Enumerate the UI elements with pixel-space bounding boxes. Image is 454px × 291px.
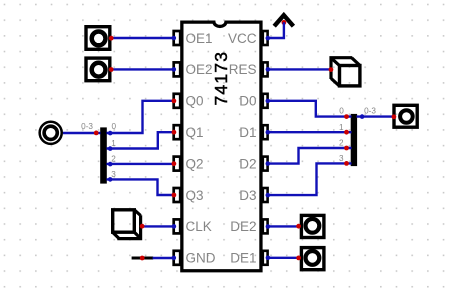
svg-text:Q2: Q2: [186, 156, 204, 171]
pin Q0: [174, 94, 181, 108]
svg-text:3: 3: [339, 154, 344, 163]
svg-text:Q0: Q0: [186, 94, 204, 109]
pin label VCC: [228, 31, 257, 46]
pin D2: [263, 157, 268, 171]
wire DE1 (pin DE1 to J4): [266, 255, 301, 260]
pin label DE1: [230, 251, 256, 266]
svg-text:Q1: Q1: [186, 125, 204, 140]
pin label Q3: [186, 188, 204, 203]
svg-text:Q3: Q3: [186, 188, 204, 203]
pin DE2: [263, 219, 268, 233]
connector J1 (square pin header, OE1): [86, 27, 110, 50]
pin Q1: [174, 125, 181, 139]
svg-text:D0: D0: [239, 94, 256, 109]
svg-text:0-3: 0-3: [364, 107, 376, 116]
pin D3: [263, 188, 268, 202]
svg-text:OE2: OE2: [186, 62, 213, 77]
pin Q2: [174, 157, 181, 171]
bus right (D0-D3): [351, 114, 357, 166]
pin label Q0: [186, 94, 204, 109]
wire Q1 (left bus to pin Q1): [107, 130, 177, 151]
connector J5 (round terminal, left): [40, 122, 62, 144]
svg-text:0: 0: [339, 107, 344, 116]
svg-text:1: 1: [111, 139, 116, 148]
svg-text:VCC: VCC: [228, 31, 257, 46]
IC U1 74173 body: [182, 22, 261, 271]
svg-text:3: 3: [111, 170, 116, 179]
svg-text:OE1: OE1: [186, 31, 213, 46]
svg-text:RES: RES: [229, 62, 257, 77]
wire Q0 (left bus to pin Q0): [107, 99, 177, 136]
wire GND black stub: [132, 256, 154, 261]
right bus label 3: [339, 154, 344, 163]
pin label D1: [239, 125, 256, 140]
pin label GND: [186, 251, 216, 266]
svg-text:0: 0: [112, 122, 117, 131]
pin GND: [174, 251, 181, 265]
connector J4 (square pin header, DE1): [301, 248, 324, 270]
pin label Q2: [186, 156, 204, 171]
svg-text:DE2: DE2: [230, 219, 256, 234]
connector J2 (square pin header, OE2): [86, 58, 110, 81]
svg-text:2: 2: [111, 155, 116, 164]
left bus label 0: [112, 122, 117, 131]
power symbol VCC arrow: [274, 15, 293, 26]
wire donut J5 to left bus: [63, 131, 101, 136]
svg-text:D1: D1: [239, 125, 256, 140]
svg-text:0-3: 0-3: [81, 122, 93, 131]
pin CLK: [174, 219, 181, 233]
pin label OE1: [186, 31, 213, 46]
left bus label 1: [111, 139, 116, 148]
wire Q3 (left bus to pin Q3): [107, 177, 177, 197]
bus left (Q0-Q3): [100, 127, 107, 183]
wire DE2 (pin DE2 to J3): [266, 224, 301, 229]
pin DE1: [263, 251, 268, 265]
wire D2 (pin D2 to right bus): [266, 146, 352, 166]
wire D1 (pin D1 to right bus): [266, 130, 352, 135]
right bus label 0: [339, 107, 344, 116]
pin D0: [263, 94, 268, 108]
pin label DE2: [230, 219, 256, 234]
svg-text:CLK: CLK: [186, 219, 212, 234]
pin label RES: [229, 62, 257, 77]
left bus label 0-3: [81, 122, 93, 131]
wire D3 (pin D3 to right bus): [266, 161, 352, 197]
pin label CLK: [186, 219, 212, 234]
svg-text:D3: D3: [239, 188, 256, 203]
pin OE1: [174, 31, 181, 45]
cube P2 (CLK net cube): [113, 210, 141, 239]
wire RES (pin RES to cube P1): [266, 67, 334, 72]
right bus label 1: [339, 123, 344, 132]
wire right bus to connector J6: [357, 114, 397, 119]
pin label D2: [239, 156, 256, 171]
svg-text:GND: GND: [186, 251, 216, 266]
pin label D3: [239, 188, 256, 203]
pin label D0: [239, 94, 256, 109]
pin D1: [263, 125, 268, 139]
right bus label 2: [339, 138, 344, 147]
cube P1 (RES net cube): [331, 58, 360, 86]
connector J6 (square pin header, right bus): [394, 105, 417, 127]
wire OE2 (J2 to pin OE2): [109, 67, 176, 72]
svg-text:2: 2: [339, 138, 344, 147]
pin VCC: [263, 31, 268, 45]
pin label Q1: [186, 125, 204, 140]
wire CLK (cube P2 to pin CLK): [140, 224, 176, 229]
IC U1 part label 74173: [211, 52, 231, 106]
left bus label 2: [111, 155, 116, 164]
wire Q2 (left bus to pin Q2): [107, 161, 177, 166]
wire GND blue (stub to pin GND): [153, 256, 177, 261]
svg-text:DE1: DE1: [230, 251, 256, 266]
svg-text:74173: 74173: [211, 52, 231, 106]
connector J3 (square pin header, DE2): [301, 215, 324, 237]
wire OE1 (J1 to pin OE1): [109, 36, 176, 41]
right bus label 0-3: [364, 107, 376, 116]
pin Q3: [174, 188, 181, 202]
wire VCC (pin VCC to power symbol): [266, 22, 284, 40]
wire D0 (pin D0 to right bus): [266, 99, 352, 119]
svg-text:1: 1: [339, 123, 344, 132]
svg-text:D2: D2: [239, 156, 256, 171]
left bus label 3: [111, 170, 116, 179]
pin label OE2: [186, 62, 213, 77]
pin OE2: [174, 62, 181, 76]
pin RES: [263, 62, 268, 76]
